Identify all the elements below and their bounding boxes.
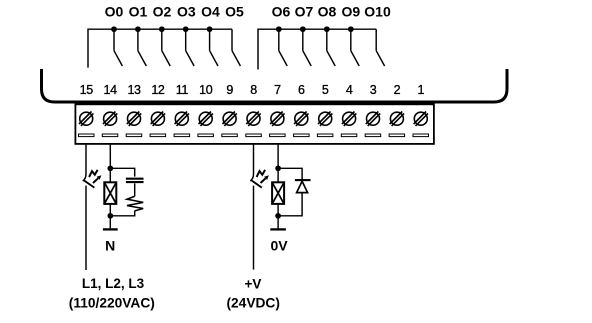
wire from terminal 14 to load bbox=[109, 144, 111, 182]
svg-text:O7: O7 bbox=[295, 4, 314, 20]
terminal clamp 5 bbox=[317, 134, 333, 137]
terminal clamp 3 bbox=[365, 134, 381, 137]
svg-text:O2: O2 bbox=[153, 4, 172, 20]
svg-text:8: 8 bbox=[250, 83, 257, 97]
spark squiggle (V) bbox=[257, 170, 266, 177]
junction dot load bottom left bbox=[107, 213, 113, 219]
relay contact O2 bbox=[162, 29, 170, 66]
terminal block bbox=[75, 104, 434, 144]
load lamp right bbox=[272, 182, 284, 204]
ground bar 0V bbox=[270, 228, 286, 230]
terminal screw 8 bbox=[246, 112, 260, 126]
wire below right lamp bbox=[277, 204, 279, 229]
flyback diode bbox=[295, 179, 311, 181]
terminal clamp 9 bbox=[222, 134, 238, 137]
wire common bus O6-O10 bbox=[258, 29, 376, 69]
junction dot O4 bus tap bbox=[207, 26, 213, 32]
svg-text:10: 10 bbox=[199, 83, 213, 97]
svg-text:(110/220VAC): (110/220VAC) bbox=[69, 296, 155, 311]
junction dot O3 bus tap bbox=[183, 26, 189, 32]
svg-text:3: 3 bbox=[370, 83, 377, 97]
svg-text:12: 12 bbox=[151, 83, 165, 97]
svg-text:O9: O9 bbox=[341, 4, 360, 20]
wire below left lamp bbox=[109, 204, 111, 229]
terminal clamp 14 bbox=[102, 134, 118, 137]
load lamp left bbox=[104, 182, 116, 204]
terminal screw 2 bbox=[390, 112, 404, 126]
junction dot O7 bus tap bbox=[300, 26, 306, 32]
snubber branch wires bbox=[110, 168, 134, 216]
terminal clamp 10 bbox=[198, 134, 214, 137]
junction dot O6 bus tap bbox=[276, 26, 282, 32]
terminal screw 7 bbox=[270, 112, 284, 126]
break blade (L) bbox=[83, 180, 94, 188]
svg-text:O6: O6 bbox=[272, 4, 291, 20]
terminal clamp 15 bbox=[79, 134, 95, 137]
svg-text:O10: O10 bbox=[364, 4, 391, 20]
svg-text:13: 13 bbox=[127, 83, 141, 97]
terminal clamp 7 bbox=[270, 134, 286, 137]
terminal screw 13 bbox=[127, 112, 141, 126]
snubber capacitor bbox=[126, 179, 144, 182]
supply wire upper segment (L) bbox=[83, 144, 86, 181]
terminal screw 11 bbox=[175, 112, 189, 126]
diode branch wires bbox=[278, 168, 302, 216]
supply wire upper segment (V) bbox=[250, 144, 253, 181]
svg-text:1: 1 bbox=[418, 83, 425, 97]
relay contact O5 bbox=[232, 29, 240, 66]
relay contact O1 bbox=[138, 29, 146, 66]
break blade (V) bbox=[251, 180, 262, 188]
relay contact O9 bbox=[351, 29, 359, 66]
svg-text:5: 5 bbox=[322, 83, 329, 97]
terminal screw 15 bbox=[79, 112, 93, 126]
relay contact O8 bbox=[327, 29, 335, 66]
svg-text:2: 2 bbox=[394, 83, 401, 97]
terminal screw 1 bbox=[414, 112, 428, 126]
svg-text:L1, L2, L3: L1, L2, L3 bbox=[82, 276, 145, 291]
terminal screw 12 bbox=[151, 112, 165, 126]
svg-text:O0: O0 bbox=[105, 4, 124, 20]
terminal screw 10 bbox=[199, 112, 213, 126]
junction dot O9 bus tap bbox=[348, 26, 354, 32]
relay contact O10 bbox=[376, 29, 384, 66]
junction dot O8 bus tap bbox=[324, 26, 330, 32]
svg-text:11: 11 bbox=[176, 83, 189, 97]
terminal screw 9 bbox=[222, 112, 236, 126]
svg-text:15: 15 bbox=[80, 83, 94, 97]
junction dot load bottom right bbox=[275, 213, 281, 219]
terminal clamp 1 bbox=[413, 134, 429, 137]
terminal clamp 2 bbox=[389, 134, 405, 137]
relay contact O0 bbox=[114, 29, 122, 66]
terminal screw 3 bbox=[366, 112, 380, 126]
terminal clamp 4 bbox=[341, 134, 357, 137]
svg-text:6: 6 bbox=[298, 83, 305, 97]
svg-text:9: 9 bbox=[226, 83, 233, 97]
terminal clamp 8 bbox=[246, 134, 261, 137]
svg-text:+V: +V bbox=[245, 277, 262, 292]
wire line supply lower segment bbox=[85, 186, 87, 270]
svg-text:0V: 0V bbox=[270, 237, 288, 253]
actuation arrow (V) bbox=[261, 178, 266, 183]
junction dot load top right bbox=[275, 165, 281, 171]
svg-text:O4: O4 bbox=[201, 4, 220, 20]
svg-text:O1: O1 bbox=[129, 4, 148, 20]
svg-text:14: 14 bbox=[104, 83, 118, 97]
terminal screw 14 bbox=[103, 112, 117, 126]
PLC case outline bbox=[42, 69, 508, 102]
wire +V lower segment bbox=[253, 186, 255, 270]
terminal clamp 13 bbox=[126, 134, 142, 137]
junction dot O0 bus tap bbox=[111, 26, 117, 32]
svg-text:O8: O8 bbox=[318, 4, 337, 20]
svg-text:O5: O5 bbox=[225, 4, 244, 20]
svg-text:7: 7 bbox=[274, 83, 281, 97]
terminal screw 4 bbox=[342, 112, 356, 126]
svg-text:O3: O3 bbox=[177, 4, 196, 20]
ground bar N bbox=[103, 228, 118, 230]
relay contact O3 bbox=[186, 29, 194, 66]
snubber resistor bbox=[127, 196, 143, 211]
svg-text:4: 4 bbox=[346, 83, 353, 97]
relay contact O6 bbox=[279, 29, 287, 66]
wire common bus O0-O5 bbox=[88, 29, 232, 67]
relay contact O7 bbox=[303, 29, 311, 66]
wire from terminal 7 to load bbox=[277, 144, 279, 182]
actuation arrow (L) bbox=[93, 178, 98, 183]
relay contact O4 bbox=[210, 29, 218, 66]
spark squiggle (L) bbox=[89, 170, 98, 177]
svg-text:(24VDC): (24VDC) bbox=[226, 296, 279, 311]
terminal clamp 11 bbox=[174, 134, 190, 137]
terminal clamp 6 bbox=[294, 134, 310, 137]
junction dot O2 bus tap bbox=[159, 26, 165, 32]
svg-text:N: N bbox=[105, 237, 115, 253]
terminal clamp 12 bbox=[150, 134, 166, 137]
terminal screw 6 bbox=[294, 112, 308, 126]
junction dot O1 bus tap bbox=[135, 26, 141, 32]
junction dot load top left bbox=[107, 165, 113, 171]
terminal screw 5 bbox=[318, 112, 332, 126]
